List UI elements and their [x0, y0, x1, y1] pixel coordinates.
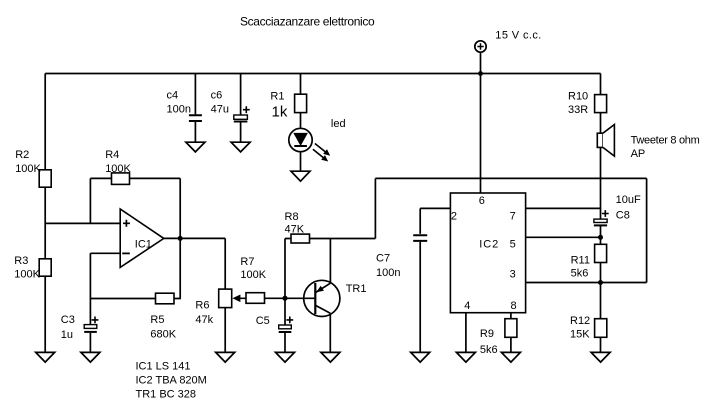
svg-text:R11: R11 — [571, 254, 590, 266]
svg-text:Tweeter 8 ohm: Tweeter 8 ohm — [631, 135, 700, 147]
svg-text:10uF: 10uF — [616, 194, 641, 206]
svg-text:R8: R8 — [285, 211, 299, 223]
svg-text:1u: 1u — [61, 329, 73, 341]
svg-text:33R: 33R — [568, 104, 588, 116]
svg-text:c4: c4 — [167, 90, 179, 102]
svg-text:680K: 680K — [150, 329, 176, 341]
svg-text:IC2 TBA 820M: IC2 TBA 820M — [136, 374, 207, 386]
svg-text:5: 5 — [510, 238, 516, 250]
svg-text:R5: R5 — [150, 314, 164, 326]
svg-text:47k: 47k — [195, 314, 213, 326]
svg-text:R3: R3 — [14, 255, 28, 267]
svg-text:5k6: 5k6 — [480, 344, 498, 356]
svg-text:100K: 100K — [14, 269, 40, 281]
svg-text:R6: R6 — [195, 299, 209, 311]
svg-text:15 V c.c.: 15 V c.c. — [495, 30, 541, 42]
svg-text:led: led — [331, 118, 346, 130]
svg-text:R2: R2 — [15, 149, 29, 161]
svg-text:C7: C7 — [376, 253, 390, 265]
svg-text:C8: C8 — [616, 209, 630, 221]
svg-text:3: 3 — [510, 269, 516, 281]
svg-text:IC2: IC2 — [479, 238, 499, 250]
svg-text:Scacciazanzare elettronico: Scacciazanzare elettronico — [240, 14, 375, 28]
svg-text:R9: R9 — [480, 328, 494, 340]
svg-text:4: 4 — [464, 300, 470, 312]
svg-text:C3: C3 — [61, 314, 75, 326]
svg-text:IC1 LS 141: IC1 LS 141 — [136, 360, 191, 372]
svg-text:1k: 1k — [272, 104, 288, 121]
svg-text:47u: 47u — [211, 103, 229, 115]
svg-text:47K: 47K — [285, 224, 305, 236]
svg-text:15K: 15K — [570, 329, 590, 341]
svg-text:100K: 100K — [240, 269, 266, 281]
svg-text:R4: R4 — [105, 149, 119, 161]
svg-text:c6: c6 — [211, 90, 223, 102]
svg-text:TR1 BC 328: TR1 BC 328 — [136, 389, 197, 401]
svg-text:R7: R7 — [240, 256, 254, 268]
svg-text:C5: C5 — [256, 315, 270, 327]
svg-text:R12: R12 — [570, 315, 590, 327]
svg-text:2: 2 — [451, 211, 457, 223]
svg-text:5k6: 5k6 — [571, 267, 589, 279]
svg-text:100K: 100K — [15, 163, 41, 175]
svg-text:100K: 100K — [105, 163, 131, 175]
svg-text:R1: R1 — [270, 90, 284, 102]
svg-text:7: 7 — [510, 211, 516, 223]
svg-text:100n: 100n — [376, 267, 400, 279]
svg-text:100n: 100n — [167, 103, 191, 115]
svg-text:IC1: IC1 — [135, 238, 152, 250]
svg-text:6: 6 — [479, 195, 485, 207]
svg-text:8: 8 — [511, 300, 517, 312]
svg-text:TR1: TR1 — [346, 283, 367, 295]
svg-text:AP: AP — [631, 148, 646, 160]
svg-text:R10: R10 — [568, 91, 588, 103]
